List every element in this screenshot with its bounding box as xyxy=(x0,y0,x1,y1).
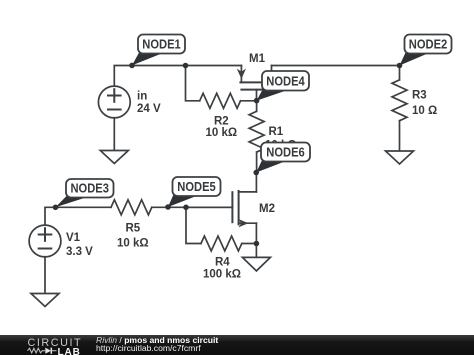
svg-text:R4: R4 xyxy=(215,257,230,269)
ground below M2 source xyxy=(242,257,270,271)
node NODE4 tag xyxy=(254,71,309,103)
junction at rail / R2 branch xyxy=(183,63,189,69)
svg-text:3.3 V: 3.3 V xyxy=(66,246,93,258)
svg-text:in: in xyxy=(137,91,147,103)
resistor R3 vertical xyxy=(392,66,407,152)
svg-text:10 kΩ: 10 kΩ xyxy=(206,127,238,139)
svg-text:LAB: LAB xyxy=(58,347,81,355)
svg-text:NODE1: NODE1 xyxy=(142,38,181,52)
wire R4 right lead to M2 source node xyxy=(242,243,257,245)
svg-text:R1: R1 xyxy=(269,126,284,138)
voltage source V1 3.3V xyxy=(29,225,61,257)
svg-text:NODE5: NODE5 xyxy=(177,180,216,194)
wire top rail from M1 drain stub to R3 / NODE2 xyxy=(272,65,400,67)
resistor R1 vertical xyxy=(249,101,264,173)
wire V1 to R5 xyxy=(45,207,111,225)
wire NODE6 to M2 drain xyxy=(255,173,257,192)
wire R4 branch drop from NODE5 net xyxy=(186,207,201,243)
svg-text:10 kΩ: 10 kΩ xyxy=(117,238,149,250)
ground below R3 xyxy=(386,151,414,164)
resistor R4 zigzag xyxy=(201,236,242,251)
svg-text:NODE4: NODE4 xyxy=(266,75,305,89)
wire R2 right lead to NODE4 junction xyxy=(241,100,257,102)
CircuitLab logo xyxy=(0,335,95,355)
svg-text:M1: M1 xyxy=(249,53,266,65)
footer bar xyxy=(0,335,474,355)
svg-text:R5: R5 xyxy=(126,223,141,235)
svg-text:NODE3: NODE3 xyxy=(70,182,109,196)
node NODE3 tag xyxy=(53,179,114,210)
svg-text:V1: V1 xyxy=(66,232,81,244)
svg-text:NODE6: NODE6 xyxy=(266,146,305,160)
node NODE6 tag xyxy=(253,143,310,176)
voltage source V(in) 24V xyxy=(98,86,130,118)
svg-text:10 Ω: 10 Ω xyxy=(412,105,437,117)
wire source IN bottom lead xyxy=(113,118,115,151)
svg-text:24 V: 24 V xyxy=(137,103,161,115)
junction R4 / M2 source xyxy=(254,241,260,247)
transistor M1 (PMOS, rotated) xyxy=(237,66,273,101)
svg-text:M2: M2 xyxy=(259,203,275,215)
ground below V1 xyxy=(31,294,59,307)
transistor M2 (NMOS) xyxy=(186,191,256,257)
wire R2 branch drop from rail xyxy=(186,66,200,101)
svg-text:R3: R3 xyxy=(412,90,427,102)
junction NODE5 net R4 branch xyxy=(183,205,189,211)
wire R5 right lead to M2 gate xyxy=(152,206,233,208)
node NODE2 tag xyxy=(397,35,452,69)
resistor R2 zigzag xyxy=(200,93,241,108)
node NODE1 tag xyxy=(129,35,185,69)
credit text xyxy=(96,336,218,353)
ground below source IN xyxy=(100,151,128,164)
node NODE5 tag xyxy=(165,177,220,210)
svg-text:NODE2: NODE2 xyxy=(409,38,448,52)
svg-text:100 kΩ: 100 kΩ xyxy=(203,269,241,281)
resistor R5 zigzag xyxy=(111,200,152,215)
svg-text:R2: R2 xyxy=(214,116,229,128)
wire top rail from source IN to M1 source stub xyxy=(114,66,241,87)
wire V1 bottom lead xyxy=(44,257,46,294)
